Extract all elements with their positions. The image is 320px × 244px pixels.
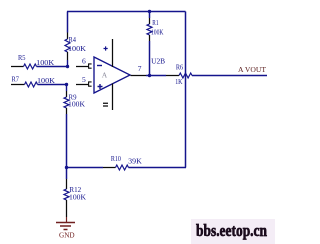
op-amp V+ power pin <box>112 39 114 67</box>
svg-text:U2B: U2B <box>151 57 165 66</box>
wire top feedback rail <box>67 11 186 13</box>
svg-text:39K: 39K <box>128 157 142 166</box>
junction dot bottom rail / R9-R12 <box>65 166 68 169</box>
svg-text:A: A <box>102 71 108 80</box>
svg-text:R7: R7 <box>12 75 20 84</box>
svg-text:100K: 100K <box>69 193 87 202</box>
resistor R6 <box>166 73 267 78</box>
resistor R12 <box>64 168 69 212</box>
watermark background tint <box>191 219 275 244</box>
svg-text:7: 7 <box>138 64 142 73</box>
op-amp V- power pin <box>112 84 114 111</box>
op-amp pin 7 output lead <box>131 75 147 77</box>
svg-text:GND: GND <box>59 230 75 239</box>
svg-text:R5: R5 <box>18 53 26 62</box>
resistor R10 <box>103 165 129 170</box>
ground <box>56 217 75 230</box>
wire bottom rail right of R10 <box>129 167 187 169</box>
svg-text:100K: 100K <box>36 58 55 67</box>
junction dot R4 / pin6 line <box>66 65 69 68</box>
op-amp plus input marker <box>98 84 103 89</box>
resistor R5 <box>11 64 68 69</box>
svg-text:5: 5 <box>82 75 86 84</box>
svg-text:R4: R4 <box>69 35 77 44</box>
resistor R9 <box>64 85 69 168</box>
wire bottom rail left of R10 <box>66 167 103 169</box>
svg-text:R1: R1 <box>152 18 158 27</box>
op-amp pin 6 lead <box>76 66 88 68</box>
svg-text:R6: R6 <box>176 63 183 72</box>
wire right vertical rail <box>185 12 187 168</box>
op-amp V+ plus symbol <box>104 46 108 50</box>
op-amp U2B triangle <box>94 57 130 93</box>
resistor R1 <box>147 12 152 76</box>
svg-text:bbs.eetop.cn: bbs.eetop.cn <box>196 221 267 240</box>
resistor R4 <box>65 12 70 67</box>
resistor R7 <box>11 82 67 87</box>
op-amp minus input marker <box>97 65 102 67</box>
op-amp pin 6 bracket <box>89 64 92 68</box>
ground lead <box>66 211 68 217</box>
junction dot top rail / R1 <box>148 10 151 13</box>
svg-text:A VOUT: A VOUT <box>238 65 266 74</box>
svg-text:100K: 100K <box>68 44 87 53</box>
op-amp pin 5 bracket <box>89 82 92 86</box>
svg-text:R10: R10 <box>111 154 121 163</box>
wire pin7 to R6 <box>146 75 166 77</box>
svg-text:100K: 100K <box>37 76 56 85</box>
svg-text:100K: 100K <box>151 27 164 36</box>
junction dot output / R1 <box>148 74 151 77</box>
op-amp V- double-bar symbol <box>103 103 108 106</box>
junction dot R9 / pin5 line <box>65 83 68 86</box>
svg-text:1K: 1K <box>175 77 183 86</box>
op-amp pin 5 lead <box>76 84 88 86</box>
svg-text:6: 6 <box>82 57 86 66</box>
svg-text:100K: 100K <box>68 100 86 109</box>
